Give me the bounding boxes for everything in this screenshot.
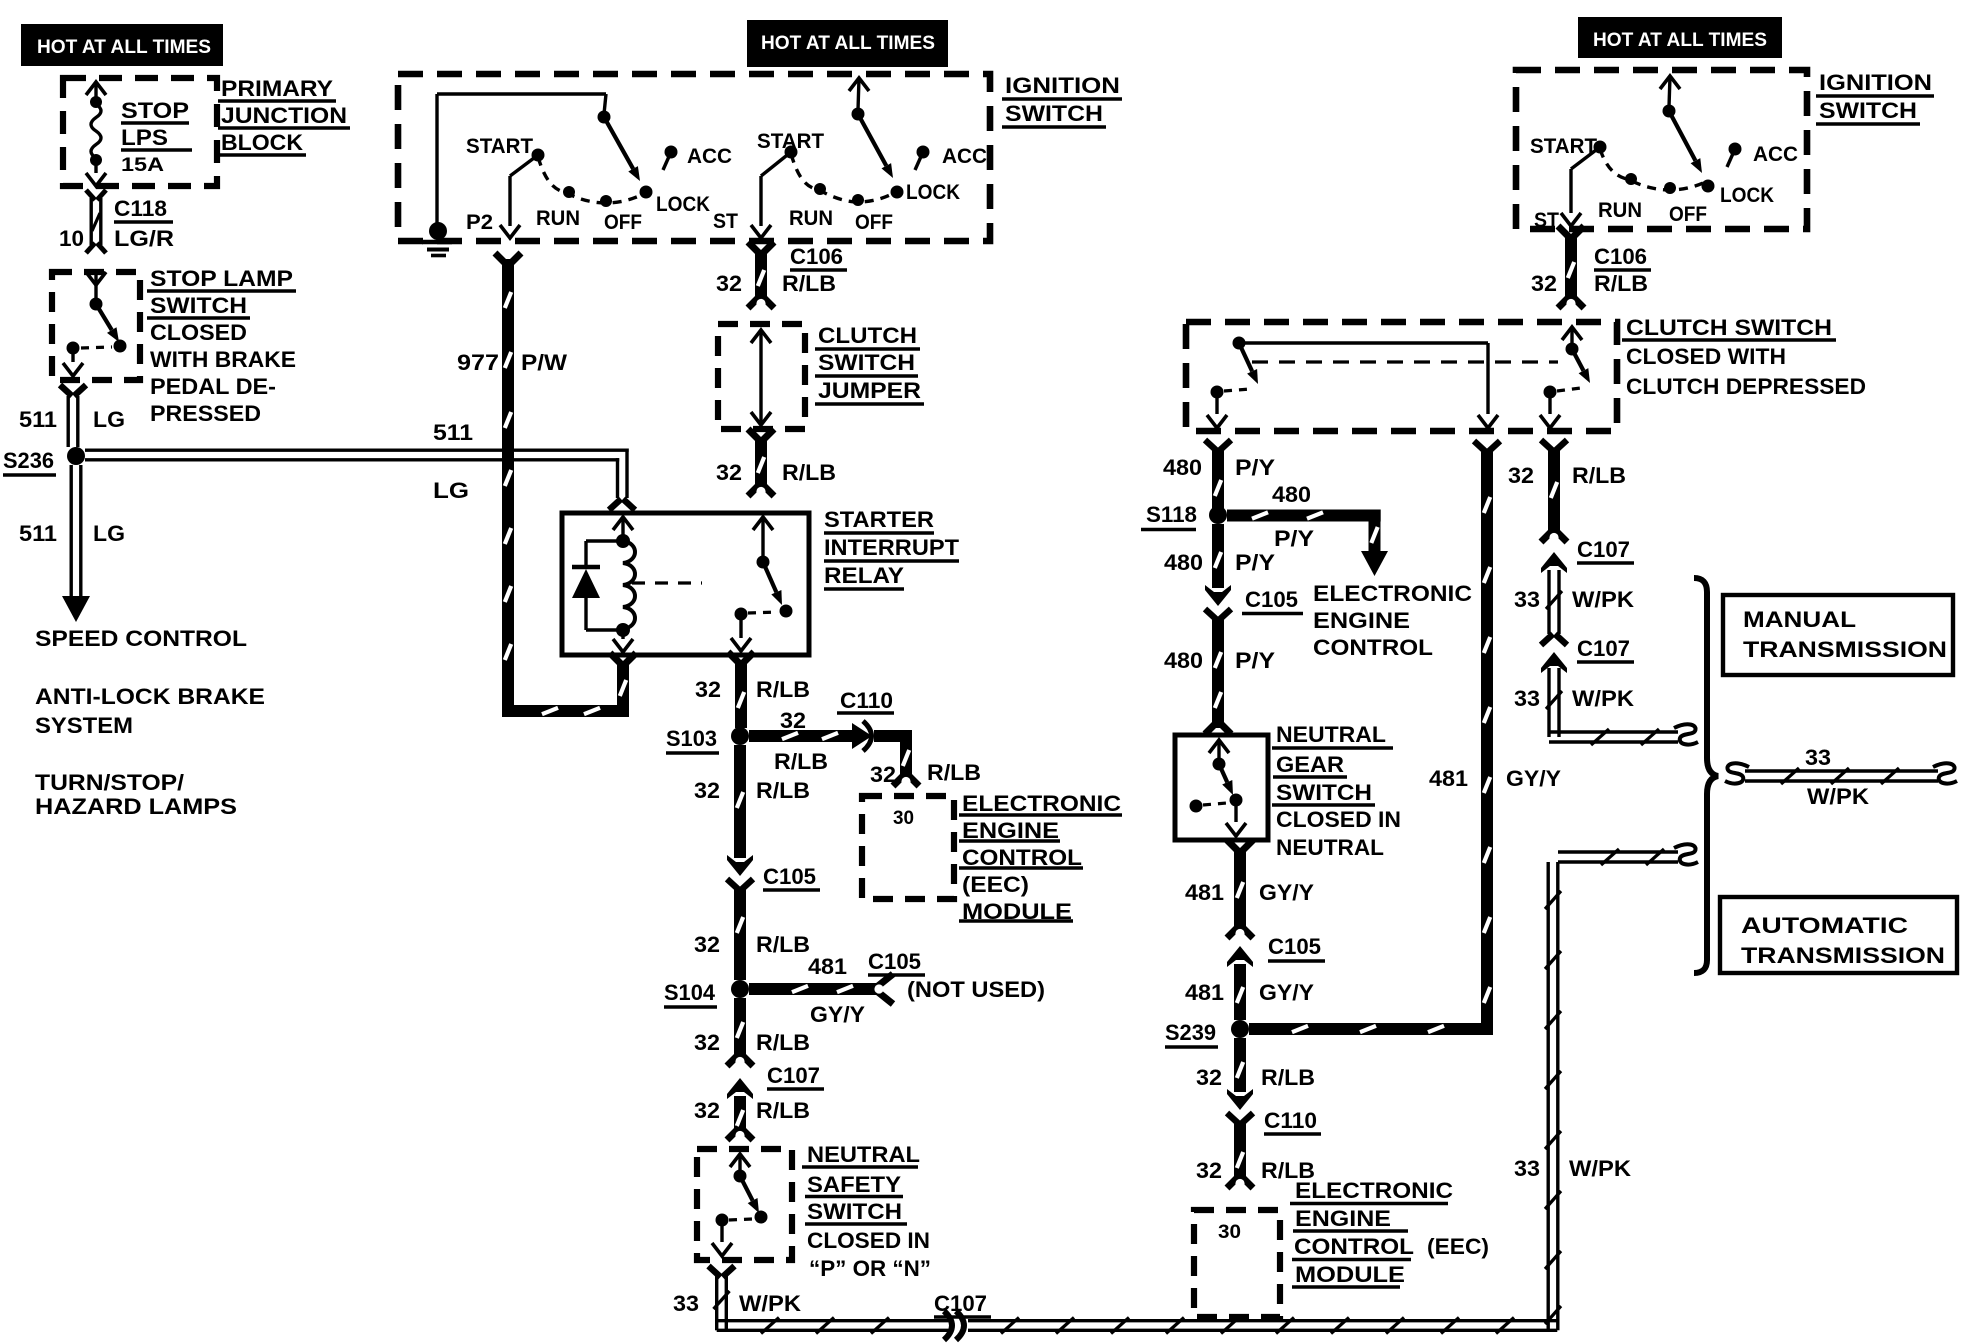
svg-text:LG: LG	[93, 521, 125, 546]
svg-text:CONTROL: CONTROL	[1294, 1234, 1414, 1259]
connector C110 (right)	[1227, 1089, 1253, 1110]
wire 32 R/LB branch S103 to C110	[749, 730, 862, 742]
svg-text:32: 32	[694, 778, 720, 803]
svg-text:ANTI-LOCK BRAKE: ANTI-LOCK BRAKE	[35, 684, 265, 709]
wire 481 GY/Y (C105 to S239)	[1234, 964, 1246, 1020]
svg-text:HOT AT ALL TIMES: HOT AT ALL TIMES	[761, 33, 935, 54]
svg-text:STOP: STOP	[121, 98, 189, 123]
svg-text:481: 481	[1185, 880, 1224, 905]
svg-text:NEUTRAL: NEUTRAL	[807, 1142, 920, 1167]
svg-text:R/LB: R/LB	[774, 749, 828, 774]
svg-text:GY/Y: GY/Y	[810, 1002, 865, 1027]
svg-text:AUTOMATIC: AUTOMATIC	[1741, 913, 1908, 938]
svg-text:ELECTRONIC: ELECTRONIC	[1295, 1178, 1453, 1203]
svg-text:S103: S103	[666, 726, 717, 751]
position dots START RUN OFF LOCK ACC (switch 1)	[532, 149, 545, 162]
svg-text:481: 481	[808, 954, 847, 979]
MANUAL TRANSMISSION box	[1723, 595, 1953, 675]
svg-text:C106: C106	[790, 244, 843, 269]
svg-text:32: 32	[1531, 271, 1557, 296]
wire 33 W/PK (neutral safety switch to C107 bottom)	[709, 1266, 721, 1277]
svg-text:481: 481	[1429, 766, 1468, 791]
svg-text:ACC: ACC	[1753, 143, 1798, 166]
wire START to ST	[761, 152, 791, 176]
connector C107 (right lower)	[1541, 634, 1553, 645]
wire 32 R/LB (S239 to C110)	[1234, 1038, 1246, 1092]
svg-text:C110: C110	[840, 688, 893, 713]
svg-text:R/LB: R/LB	[1261, 1065, 1315, 1090]
svg-text:32: 32	[694, 1030, 720, 1055]
neutral gear switch arm	[1219, 764, 1227, 782]
svg-text:480: 480	[1164, 550, 1203, 575]
svg-text:(NOT USED): (NOT USED)	[907, 977, 1045, 1002]
svg-text:SWITCH: SWITCH	[1276, 780, 1372, 805]
svg-text:W/PK: W/PK	[739, 1291, 802, 1316]
ignition switch 3 pivot and arm to LOCK	[1663, 105, 1676, 118]
brace (transmission alternatives)	[1694, 578, 1718, 973]
svg-text:P2: P2	[466, 211, 493, 234]
wire 32 R/LB (clutch switch right to C107)	[1541, 440, 1553, 451]
connector C105 (right upper)	[1205, 585, 1231, 606]
svg-text:CLOSED WITH: CLOSED WITH	[1626, 344, 1786, 369]
splice node S104	[731, 980, 749, 998]
svg-text:33: 33	[1805, 745, 1831, 770]
svg-text:SYSTEM: SYSTEM	[35, 713, 133, 738]
cut-wire squiggle (manual transmission feed)	[1674, 724, 1698, 744]
svg-text:32: 32	[1196, 1065, 1222, 1090]
svg-text:ACC: ACC	[687, 145, 732, 168]
svg-text:SWITCH: SWITCH	[807, 1199, 902, 1224]
svg-text:START: START	[466, 135, 533, 158]
svg-text:32: 32	[694, 1098, 720, 1123]
svg-text:480: 480	[1163, 455, 1202, 480]
svg-text:SWITCH: SWITCH	[1005, 101, 1103, 126]
svg-text:C105: C105	[1268, 934, 1321, 959]
svg-text:SPEED CONTROL: SPEED CONTROL	[35, 626, 247, 651]
svg-text:RUN: RUN	[789, 207, 833, 230]
relay contact	[753, 517, 773, 530]
svg-text:OFF: OFF	[1669, 203, 1707, 226]
stop lamp switch pivot	[90, 298, 103, 311]
primary junction block (dashed box)	[63, 78, 217, 186]
splice node S236	[67, 447, 85, 465]
svg-text:R/LB: R/LB	[782, 460, 836, 485]
ignition switch (right, dashed box)	[1516, 70, 1807, 229]
svg-text:32: 32	[695, 677, 721, 702]
wire 481 GY/Y stub to C105 (NOT USED)	[749, 983, 878, 995]
ignition switch 2 pivot and arm to LOCK	[852, 108, 865, 121]
svg-text:30: 30	[1218, 1222, 1241, 1243]
relay flyback diode	[586, 539, 623, 542]
splice node S118	[1209, 506, 1227, 524]
wire START to P2	[510, 155, 538, 176]
svg-text:GY/Y: GY/Y	[1506, 766, 1561, 791]
svg-text:HOT AT ALL TIMES: HOT AT ALL TIMES	[1593, 30, 1767, 51]
svg-text:C105: C105	[868, 949, 921, 974]
svg-text:P/Y: P/Y	[1274, 526, 1314, 551]
svg-text:32: 32	[1508, 463, 1534, 488]
position dots START RUN OFF LOCK ACC (switch 3)	[1594, 141, 1607, 154]
svg-text:32: 32	[694, 932, 720, 957]
svg-text:RUN: RUN	[536, 207, 580, 230]
svg-text:R/LB: R/LB	[1594, 271, 1648, 296]
ignition switch 2 feed from HOT	[849, 78, 869, 91]
svg-text:C110: C110	[1264, 1108, 1317, 1133]
wire 480 P/Y (clutch switch to S118)	[1205, 440, 1217, 451]
svg-text:CLOSED IN: CLOSED IN	[1276, 807, 1401, 832]
svg-text:LG/R: LG/R	[114, 226, 174, 251]
svg-text:ENGINE: ENGINE	[1313, 608, 1410, 633]
svg-text:C105: C105	[1245, 587, 1298, 612]
svg-text:33: 33	[673, 1291, 699, 1316]
svg-text:ELECTRONIC: ELECTRONIC	[962, 791, 1121, 816]
svg-text:C107: C107	[1577, 537, 1630, 562]
svg-text:33: 33	[1514, 1156, 1540, 1181]
relay coil branch	[613, 517, 633, 530]
svg-text:STARTER: STARTER	[824, 507, 934, 532]
neutral gear switch contact	[1190, 800, 1203, 813]
svg-text:R/LB: R/LB	[927, 760, 981, 785]
svg-text:CLOSED: CLOSED	[150, 320, 247, 345]
clutch switch (dashed box)	[1186, 322, 1617, 431]
svg-text:SAFETY: SAFETY	[807, 1172, 901, 1197]
wire 32 R/LB (S104 to C107)	[734, 998, 746, 1058]
connector C118	[86, 190, 95, 200]
stop lamp switch arm	[96, 304, 112, 330]
svg-text:33: 33	[1514, 686, 1540, 711]
svg-text:C105: C105	[763, 864, 816, 889]
svg-text:(EEC): (EEC)	[962, 872, 1029, 897]
svg-text:P/W: P/W	[521, 350, 568, 375]
svg-text:R/LB: R/LB	[756, 1098, 810, 1123]
svg-text:HAZARD LAMPS: HAZARD LAMPS	[35, 794, 237, 819]
svg-text:511: 511	[19, 407, 57, 432]
wire 480 P/Y (S118 to C105)	[1212, 524, 1224, 588]
svg-text:C107: C107	[1577, 636, 1630, 661]
svg-text:ST: ST	[713, 210, 738, 233]
ignition feed wire to ground P1 side	[435, 94, 438, 228]
svg-text:W/PK: W/PK	[1569, 1156, 1632, 1181]
svg-text:LOCK: LOCK	[906, 181, 960, 204]
neutral safety switch pivot	[734, 1170, 747, 1183]
svg-text:R/LB: R/LB	[756, 778, 810, 803]
svg-text:S239: S239	[1165, 1020, 1216, 1045]
neutral safety switch contact	[716, 1214, 729, 1227]
neutral gear switch (solid box)	[1175, 735, 1268, 840]
svg-text:JUMPER: JUMPER	[818, 378, 921, 403]
ignition switch 1 pivot and arm to LOCK	[598, 111, 611, 124]
connector C107 (right upper)	[1541, 530, 1553, 542]
EEC module pin 30 (dashed box, right)	[1194, 1210, 1280, 1317]
svg-text:32: 32	[716, 271, 742, 296]
neutral safety switch (dashed box)	[697, 1149, 792, 1260]
wire 511 LG (S236 to starter interrupt relay)	[85, 449, 629, 452]
svg-text:START: START	[1530, 135, 1597, 158]
fuse STOP LPS 15A	[86, 82, 106, 95]
wire 32 R/LB (C105 to S104)	[734, 888, 746, 980]
svg-text:IGNITION: IGNITION	[1819, 70, 1932, 95]
svg-text:RUN: RUN	[1598, 199, 1642, 222]
connector C107 (bottom wire)	[944, 1311, 952, 1340]
ignition switch (middle, dashed box)	[398, 74, 990, 241]
power feed label: HOT AT ALL TIMES (right)	[1578, 17, 1782, 58]
wire 32 R/LB (relay to S103)	[728, 652, 740, 664]
svg-text:MODULE: MODULE	[1295, 1262, 1405, 1287]
svg-text:CLUTCH SWITCH: CLUTCH SWITCH	[1626, 315, 1832, 340]
svg-text:30: 30	[893, 808, 914, 829]
wire 33 W/PK (C107 to automatic transmission riser)	[968, 1319, 1557, 1322]
connector C105 (right lower)	[1227, 926, 1239, 938]
svg-text:NEUTRAL: NEUTRAL	[1276, 722, 1386, 747]
svg-text:OFF: OFF	[855, 211, 893, 234]
svg-text:CLUTCH: CLUTCH	[818, 323, 917, 348]
EEC module pin 30 (dashed box, middle)	[862, 796, 954, 899]
wire 481 GY/Y riser (clutch switch to S239 branch)	[1474, 441, 1486, 452]
relay mechanical link (dashed)	[632, 581, 702, 584]
svg-text:LOCK: LOCK	[656, 193, 710, 216]
wire 33 W/PK (C107 to manual transmission squiggle)	[1547, 668, 1550, 737]
ignition switch 3 feed from HOT	[1660, 76, 1680, 89]
wire 32 R/LB (jumper to relay)	[748, 429, 760, 441]
svg-text:511: 511	[19, 521, 57, 546]
connector C107 (middle)	[727, 1054, 739, 1066]
clutch switch mechanical link (dashed)	[1252, 360, 1558, 363]
wire 33 W/PK (C107 to C107)	[1547, 570, 1550, 634]
svg-text:P/Y: P/Y	[1235, 455, 1275, 480]
svg-text:STOP LAMP: STOP LAMP	[150, 266, 293, 291]
svg-text:IGNITION: IGNITION	[1005, 73, 1120, 98]
splice node S103	[731, 727, 749, 745]
connector C106 (middle, ST to clutch jumper) wire 32 R/LB	[748, 242, 760, 254]
clutch switch left mechanism	[1233, 337, 1246, 350]
clutch switch jumper (dashed box)	[718, 324, 805, 429]
svg-text:BLOCK: BLOCK	[221, 130, 304, 155]
AUTOMATIC TRANSMISSION box	[1720, 897, 1957, 973]
connector C110 (middle)	[852, 723, 872, 749]
svg-text:“P” OR “N”: “P” OR “N”	[809, 1256, 931, 1281]
svg-text:LOCK: LOCK	[1720, 184, 1774, 207]
svg-text:32: 32	[716, 460, 742, 485]
wire 480 P/Y branch to EEC (arrow)	[1227, 510, 1381, 522]
wire 480 P/Y (C105 to neutral gear switch)	[1212, 618, 1224, 728]
svg-text:NEUTRAL: NEUTRAL	[1276, 835, 1384, 860]
wire 481 GY/Y (neutral gear switch to C105)	[1227, 840, 1239, 852]
stop lamp switch (dashed box)	[52, 272, 140, 380]
wire 32 R/LB (S103 to C105)	[734, 745, 746, 858]
wire 977 P/W (P2 to relay coil)	[502, 259, 514, 705]
svg-text:C107: C107	[767, 1063, 820, 1088]
svg-text:GY/Y: GY/Y	[1259, 980, 1314, 1005]
svg-text:33: 33	[1514, 587, 1540, 612]
svg-text:HOT AT ALL TIMES: HOT AT ALL TIMES	[37, 37, 211, 58]
svg-text:JUNCTION: JUNCTION	[221, 103, 347, 128]
svg-text:C118: C118	[114, 196, 167, 221]
svg-text:R/LB: R/LB	[756, 1030, 810, 1055]
svg-text:CONTROL: CONTROL	[1313, 635, 1433, 660]
svg-text:10: 10	[59, 226, 84, 251]
wire 32 R/LB (C110 to EEC module right)	[1234, 1122, 1246, 1180]
svg-text:R/LB: R/LB	[756, 932, 810, 957]
svg-text:CLOSED IN: CLOSED IN	[807, 1228, 930, 1253]
svg-text:TURN/STOP/: TURN/STOP/	[35, 770, 185, 795]
svg-text:C106: C106	[1594, 244, 1647, 269]
wire 32 R/LB (C107 to neutral safety switch)	[734, 1096, 746, 1132]
svg-text:SWITCH: SWITCH	[150, 293, 247, 318]
svg-text:OFF: OFF	[604, 211, 642, 234]
svg-text:LG: LG	[93, 407, 125, 432]
svg-text:ELECTRONIC: ELECTRONIC	[1313, 581, 1472, 606]
starter interrupt relay (solid box)	[562, 513, 809, 655]
svg-text:PRIMARY: PRIMARY	[221, 76, 333, 101]
svg-text:SWITCH: SWITCH	[1819, 98, 1917, 123]
svg-text:480: 480	[1272, 482, 1311, 507]
svg-text:W/PK: W/PK	[1572, 686, 1635, 711]
ground (ignition switch middle)	[429, 222, 447, 240]
svg-text:R/LB: R/LB	[782, 271, 836, 296]
svg-text:32: 32	[780, 708, 806, 733]
svg-text:481: 481	[1185, 980, 1224, 1005]
svg-text:P/Y: P/Y	[1235, 648, 1275, 673]
connector at relay coil + terminal	[609, 499, 621, 510]
neutral gear switch pivot	[1213, 758, 1226, 771]
svg-text:START: START	[757, 130, 824, 153]
power feed label: HOT AT ALL TIMES (left)	[21, 24, 223, 66]
wire START to ST (right)	[1571, 147, 1600, 169]
svg-text:RELAY: RELAY	[824, 563, 904, 588]
wire 511 LG (S236 to speed control, arrow down)	[69, 465, 72, 596]
svg-text:WITH BRAKE: WITH BRAKE	[150, 347, 296, 372]
svg-text:SWITCH: SWITCH	[818, 350, 915, 375]
svg-text:ST: ST	[1534, 209, 1559, 232]
svg-text:PRESSED: PRESSED	[150, 401, 261, 426]
svg-text:GEAR: GEAR	[1276, 752, 1344, 777]
wire 33 W/PK riser (bottom wire up to automatic transmission)	[1546, 862, 1549, 1330]
svg-text:GY/Y: GY/Y	[1259, 880, 1314, 905]
splice node S239	[1231, 1020, 1249, 1038]
svg-text:CLUTCH DEPRESSED: CLUTCH DEPRESSED	[1626, 374, 1866, 399]
svg-text:ACC: ACC	[942, 145, 987, 168]
svg-text:R/LB: R/LB	[756, 677, 810, 702]
wire 32 R/LB (C110 to EEC module)	[874, 730, 900, 742]
neutral safety switch arm	[740, 1176, 753, 1201]
wire 511 LG (switch to S236)	[60, 385, 72, 396]
svg-text:W/PK: W/PK	[1572, 587, 1635, 612]
wire 33 W/PK (transmission stub with squiggles)	[1725, 763, 1749, 783]
svg-text:PEDAL DE-: PEDAL DE-	[150, 374, 276, 399]
svg-text:INTERRUPT: INTERRUPT	[824, 535, 959, 560]
clutch switch internal jumper wire to 481 branch	[1239, 341, 1488, 344]
svg-text:S118: S118	[1146, 502, 1197, 527]
svg-text:TRANSMISSION: TRANSMISSION	[1741, 943, 1945, 968]
svg-text:MANUAL: MANUAL	[1743, 607, 1856, 632]
svg-text:S104: S104	[664, 980, 715, 1005]
svg-text:S236: S236	[3, 448, 54, 473]
svg-text:TRANSMISSION: TRANSMISSION	[1743, 637, 1947, 662]
connector C106 (right) wire 32 R/LB	[1558, 226, 1570, 238]
svg-text:480: 480	[1164, 648, 1203, 673]
clutch switch right mechanism (from C106)	[1562, 327, 1582, 340]
power feed label: HOT AT ALL TIMES (middle)	[747, 20, 948, 67]
wire 481 GY/Y branch (S239 to clutch switch riser)	[1249, 1023, 1493, 1035]
svg-text:32: 32	[1196, 1158, 1222, 1183]
svg-text:W/PK: W/PK	[1807, 784, 1870, 809]
svg-text:977: 977	[457, 350, 499, 375]
svg-text:LG: LG	[433, 478, 469, 503]
svg-text:(EEC): (EEC)	[1427, 1234, 1489, 1259]
cut-wire squiggle (automatic transmission feed)	[1674, 844, 1698, 864]
svg-text:P/Y: P/Y	[1235, 550, 1275, 575]
svg-text:LPS: LPS	[121, 125, 168, 150]
svg-text:R/LB: R/LB	[1572, 463, 1626, 488]
wire 33 W/PK (riser to automatic transmission squiggle)	[1558, 850, 1678, 853]
svg-text:32: 32	[870, 762, 896, 787]
connector C105 (middle)	[727, 855, 753, 876]
position dots START RUN OFF LOCK ACC (switch 2)	[785, 146, 798, 159]
svg-text:511: 511	[433, 420, 473, 445]
svg-text:15A: 15A	[121, 155, 164, 176]
svg-text:ENGINE: ENGINE	[1295, 1206, 1391, 1231]
stop lamp switch contact	[67, 342, 80, 355]
svg-text:C107: C107	[934, 1291, 987, 1316]
